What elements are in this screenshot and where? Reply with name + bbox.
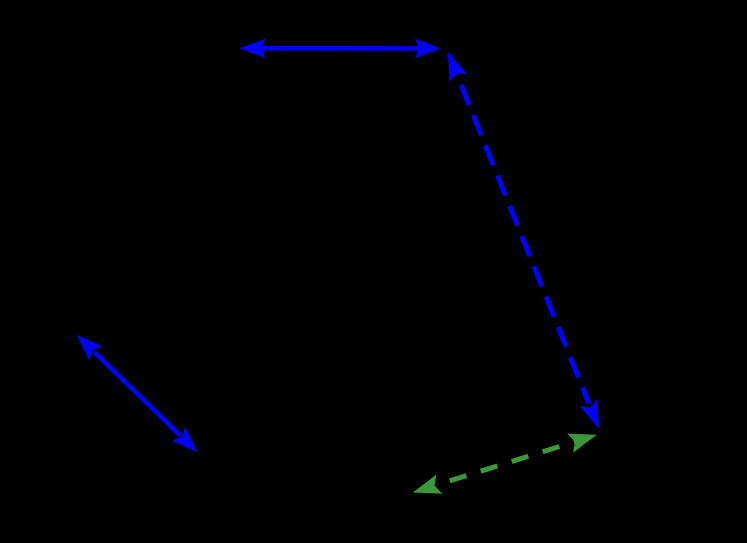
arrow top: blue solid double-headed horizontal	[240, 39, 442, 58]
arrow bottom: green dashed double-headed	[413, 434, 597, 494]
arrow left: blue solid double-headed diagonal	[77, 335, 197, 452]
arrow right: blue dashed double-headed steep diagonal	[448, 52, 599, 429]
